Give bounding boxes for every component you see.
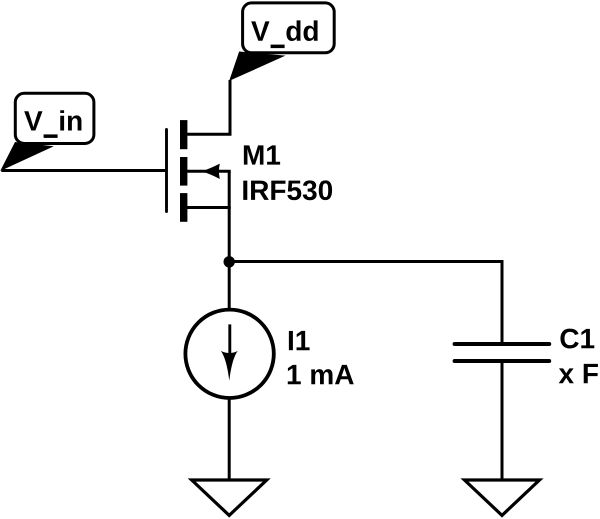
wire source to node [228, 208, 231, 310]
wire current source to ground [228, 398, 231, 480]
gate line [165, 130, 168, 212]
label IRF530 [243, 180, 332, 200]
label M1 [244, 145, 280, 164]
transistor M1 [167, 120, 231, 222]
bulk-source tie [228, 171, 231, 207]
arrow head [221, 351, 238, 381]
wire node to capacitor [229, 262, 502, 344]
ground right [465, 480, 540, 515]
source circle [185, 310, 273, 398]
capacitor C1 [455, 344, 550, 361]
source lead [186, 206, 231, 209]
bulk lead [186, 170, 231, 173]
label C1 [560, 329, 594, 349]
channel bar bulk [180, 157, 187, 186]
bulk arrow [202, 164, 220, 179]
net flag V_in [1, 93, 94, 170]
wire V_dd to drain [184, 80, 230, 134]
channel bar drain [180, 120, 187, 149]
arrow shaft [228, 324, 231, 358]
channel bar source [180, 193, 187, 222]
wire capacitor to ground [501, 361, 504, 480]
wire gate lead [1, 169, 166, 172]
label x F [559, 364, 598, 383]
current source I1 [185, 310, 273, 398]
net flag V_dd [230, 3, 334, 80]
label I1 [289, 331, 310, 350]
ground left [192, 480, 267, 515]
label 1 mA [288, 365, 354, 384]
node source junction [224, 256, 235, 267]
